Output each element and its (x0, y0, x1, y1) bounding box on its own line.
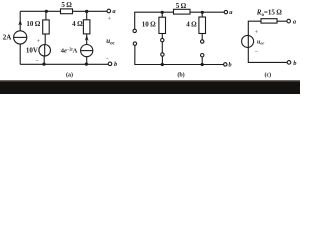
terminal b of (b) (224, 63, 227, 66)
node: (b) junction branch2 bottom (201, 63, 204, 66)
voltage source 10V (39, 45, 51, 57)
svg-text:4 Ω: 4 Ω (186, 21, 197, 29)
terminal b of (c) (287, 61, 291, 65)
label (b) (177, 71, 184, 78)
label b of (a) (114, 61, 118, 68)
wire: (b) branch1 middle (161, 34, 163, 39)
node: (a) junction of 4Ω branch on top wire (85, 10, 88, 13)
label + of 10V (37, 39, 41, 45)
terminal: (b) left open gap lower circle (133, 42, 136, 45)
svg-text:uoc: uoc (257, 39, 264, 45)
wire: (b) top wire with left stub (135, 12, 225, 29)
svg-text:−: − (106, 56, 110, 62)
wire: (c) top wire left (248, 21, 261, 35)
wire: (a) branch2 middle (44, 34, 46, 45)
label a of (b) (229, 9, 233, 16)
wire: (a) branch2 bottom (43, 56, 45, 64)
wire: (b) branch2 stub top (201, 12, 203, 17)
node: (a) junction of 10Ω branch on top wire (45, 10, 48, 13)
terminal: (b) branch1 gap upper circle (161, 38, 164, 41)
wire: (a) branch3 stub top (86, 11, 88, 19)
svg-text:10V: 10V (26, 47, 38, 55)
current source 2A (14, 20, 27, 44)
node: (a) junction branch3 bottom (85, 63, 88, 66)
node: (a) junction branch2 bottom (42, 63, 45, 66)
label a of (c) (293, 18, 297, 25)
terminal a of (a) (107, 9, 111, 13)
wire: (a) branch3 bottom (86, 57, 88, 65)
resistor 10Ω (b), vertical (159, 17, 166, 33)
label 10Ω (b) (142, 21, 156, 29)
wire: (c) left bottom and bottom wire (248, 47, 287, 62)
terminal a of (c) (287, 19, 291, 23)
label + of u_oc (a) (108, 16, 112, 22)
node: (b) junction 4Ω top (201, 11, 204, 14)
wire: (a) branch2 stub top (45, 11, 47, 20)
terminal: (b) branch1 gap lower circle (161, 53, 164, 56)
scan page edge black bar (0, 80, 300, 94)
wire: (a) left branch upper (19, 11, 21, 31)
svg-text:4 Ω: 4 Ω (72, 20, 83, 28)
current source 4e^-2t A (81, 45, 93, 57)
label − of u_oc (a) (106, 56, 110, 62)
wire: (a) bottom wire (20, 63, 108, 65)
label 4Ω (b) (186, 21, 197, 29)
terminal a of (b) (224, 10, 227, 13)
resistor 10Ω (a), vertical (43, 20, 50, 34)
label 10Ω (26, 20, 40, 28)
label u_oc (c) (257, 39, 264, 45)
label b of (c) (293, 60, 297, 67)
svg-text:(b): (b) (177, 71, 184, 78)
resistor R_o (c), horizontal (261, 19, 277, 23)
resistor 4Ω (b), vertical (199, 17, 206, 34)
wire: (a) top wire (20, 10, 107, 12)
label 5Ω (a) (61, 1, 72, 9)
svg-text:−: − (255, 49, 259, 55)
label (c) (264, 71, 271, 78)
node: (b) junction 10Ω top (161, 11, 164, 14)
svg-text:(a): (a) (66, 71, 73, 78)
resistor 5Ω (b), horizontal (174, 9, 191, 14)
svg-text:10 Ω: 10 Ω (142, 21, 156, 29)
label 4e^-2t A (61, 46, 78, 54)
terminal: (b) branch2 gap upper circle (201, 40, 204, 43)
node: (b) junction branch1 bottom (161, 63, 164, 66)
label 10V (26, 47, 38, 55)
wire: (b) branch1 between circles (shorted voltage source) (161, 42, 163, 53)
svg-text:(c): (c) (264, 71, 271, 78)
wire: (b) branch1 stub top (161, 12, 163, 17)
label 2A (3, 34, 12, 42)
voltage source u_oc (c) (242, 35, 254, 47)
label R_o=15Ω (256, 8, 282, 17)
resistor 4Ω (a), vertical (83, 20, 90, 34)
wire: (b) branch1 bottom (161, 56, 163, 64)
label − of 10V (36, 58, 40, 64)
terminal b of (a) (108, 62, 112, 66)
wire: (b) branch2 bottom (201, 57, 203, 65)
label u_oc (a) (106, 37, 115, 47)
wire: (a) branch3 middle with arrow (85, 34, 89, 45)
resistor 5Ω (a), horizontal in top wire (61, 9, 73, 14)
wire: (b) branch2 middle (201, 34, 203, 40)
terminal: (b) left open gap upper circle (133, 29, 136, 32)
wire: (c) top wire right (277, 20, 287, 22)
label − of u_oc (c) (255, 49, 259, 55)
label + of u_oc (c) (255, 30, 259, 36)
svg-text:+: + (108, 16, 112, 22)
label b of (b) (228, 62, 232, 69)
label a of (a) (112, 8, 116, 15)
svg-text:10 Ω: 10 Ω (26, 20, 40, 28)
svg-text:5 Ω: 5 Ω (61, 1, 72, 9)
wire: (b) left lower stub and bottom wire (135, 45, 224, 64)
svg-text:5 Ω: 5 Ω (176, 2, 187, 10)
svg-text:Ro=15 Ω: Ro=15 Ω (256, 8, 282, 17)
wire: (a) left branch lower (19, 44, 21, 64)
label (a) (66, 71, 73, 78)
label 4Ω (a) (72, 20, 83, 28)
svg-text:2A: 2A (3, 34, 12, 42)
label 5Ω (b) (176, 2, 187, 10)
svg-text:−: − (36, 58, 40, 64)
terminal: (b) branch2 gap lower circle (201, 54, 204, 57)
